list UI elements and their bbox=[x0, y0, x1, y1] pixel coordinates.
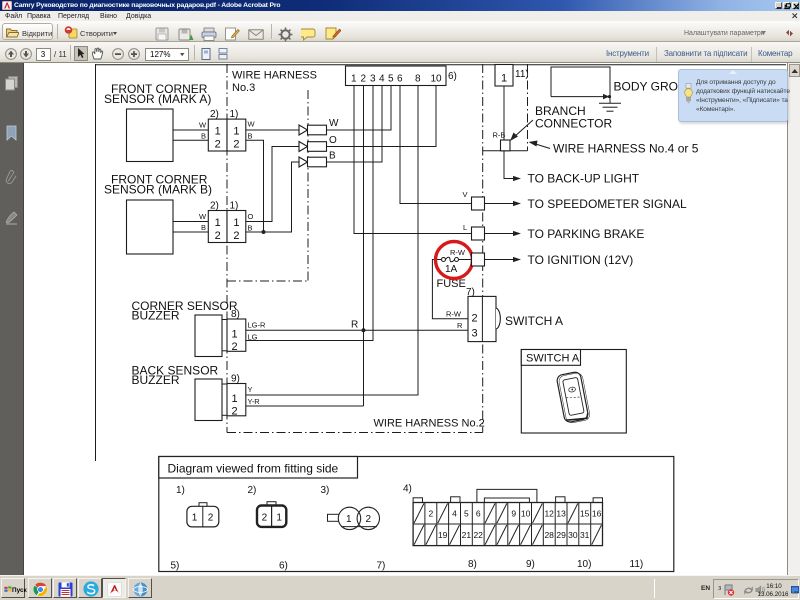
connector 7) divider bbox=[481, 296, 483, 341]
svg-text:10): 10) bbox=[577, 559, 591, 570]
svg-text:4: 4 bbox=[452, 509, 457, 519]
svg-text:1: 1 bbox=[232, 328, 238, 340]
wire B filter to pin4 bbox=[327, 86, 383, 163]
svg-text:WIRE HARNESS: WIRE HARNESS bbox=[232, 70, 317, 82]
wire LG: connector 8 pin2 (joins pin3 line) bbox=[246, 340, 373, 342]
noise filter W triangle bbox=[299, 125, 308, 135]
noise filter B box bbox=[308, 157, 327, 167]
svg-text:30: 30 bbox=[568, 530, 578, 540]
svg-text:8: 8 bbox=[415, 74, 421, 85]
svg-text:Y: Y bbox=[248, 385, 253, 394]
wire LG-R / R to switch pin3 bbox=[246, 329, 468, 331]
wire O: connector B up to noise filter O bbox=[246, 147, 299, 222]
svg-text:BUZZER: BUZZER bbox=[132, 373, 180, 387]
svg-text:1): 1) bbox=[176, 485, 185, 496]
svg-text:TO IGNITION (12V): TO IGNITION (12V) bbox=[528, 253, 634, 267]
svg-text:2): 2) bbox=[210, 109, 219, 120]
svg-text:2: 2 bbox=[215, 139, 221, 151]
svg-text:1: 1 bbox=[233, 125, 239, 137]
svg-text:WIRE HARNESS No.4 or 5: WIRE HARNESS No.4 or 5 bbox=[553, 142, 699, 156]
svg-text:BUZZER: BUZZER bbox=[132, 309, 180, 323]
connector 8) corner buzzer bbox=[227, 319, 246, 351]
svg-text:LG: LG bbox=[248, 332, 258, 341]
front corner sensor (MARK A) body bbox=[127, 109, 174, 162]
connector 2) sensor A side bbox=[208, 119, 227, 151]
noise filter O box bbox=[308, 142, 327, 152]
connector 6) main harness bbox=[346, 66, 447, 86]
svg-text:3): 3) bbox=[321, 485, 330, 496]
connector V (speedometer) bbox=[472, 197, 485, 210]
svg-text:12: 12 bbox=[544, 509, 554, 519]
connector 7) switch A bbox=[468, 296, 496, 341]
svg-text:21: 21 bbox=[462, 530, 472, 540]
svg-text:3: 3 bbox=[370, 74, 376, 85]
svg-text:WIRE HARNESS No.2: WIRE HARNESS No.2 bbox=[374, 418, 485, 430]
connector IGN bbox=[472, 253, 485, 266]
connector 1) harness side B bbox=[227, 211, 246, 243]
svg-text:CONNECTOR: CONNECTOR bbox=[535, 117, 612, 131]
svg-text:9): 9) bbox=[231, 374, 240, 385]
svg-text:11): 11) bbox=[515, 69, 529, 80]
SWITCH A picture box bbox=[521, 350, 626, 434]
svg-text:W: W bbox=[199, 212, 207, 221]
body ground junction arrow bbox=[603, 94, 610, 99]
svg-text:B: B bbox=[201, 223, 206, 232]
junction dot B net bbox=[262, 230, 266, 234]
svg-text:15: 15 bbox=[580, 509, 590, 519]
svg-text:SWITCH A: SWITCH A bbox=[526, 353, 580, 365]
svg-text:V: V bbox=[463, 190, 468, 199]
svg-text:B: B bbox=[248, 132, 253, 141]
svg-text:5): 5) bbox=[171, 561, 180, 572]
connector drawing 3) bbox=[328, 507, 380, 529]
svg-text:2): 2) bbox=[210, 201, 219, 212]
svg-text:22: 22 bbox=[473, 530, 483, 540]
connector 11) bbox=[495, 65, 513, 87]
svg-text:LG-R: LG-R bbox=[248, 321, 267, 330]
rocker switch drawing bbox=[556, 371, 591, 424]
svg-text:2: 2 bbox=[429, 509, 434, 519]
front corner sensor (MARK B) body bbox=[127, 200, 174, 254]
ground symbol bbox=[609, 97, 611, 103]
noise filter O triangle bbox=[299, 142, 308, 152]
svg-text:31: 31 bbox=[580, 530, 590, 540]
svg-text:3: 3 bbox=[472, 328, 478, 340]
svg-text:R-W: R-W bbox=[450, 248, 466, 257]
svg-text:B: B bbox=[329, 151, 336, 162]
svg-text:19: 19 bbox=[438, 530, 448, 540]
wire B: connector B right, up to noise filter B bbox=[246, 162, 299, 232]
svg-text:SENSOR (MARK B): SENSOR (MARK B) bbox=[104, 182, 212, 196]
wire B: connector A down to join B net bbox=[246, 140, 264, 232]
junction dot R net bbox=[362, 328, 366, 332]
svg-text:2: 2 bbox=[232, 405, 238, 417]
svg-text:R-W: R-W bbox=[446, 310, 462, 319]
svg-text:2: 2 bbox=[472, 313, 478, 325]
svg-text:2: 2 bbox=[215, 230, 221, 242]
svg-text:1: 1 bbox=[276, 513, 282, 524]
svg-text:TO BACK-UP LIGHT: TO BACK-UP LIGHT bbox=[528, 172, 640, 186]
svg-text:1: 1 bbox=[215, 217, 221, 229]
wire harness No.4/5 boundary dash-dot x527.5 bbox=[527, 64, 529, 151]
svg-text:2: 2 bbox=[232, 341, 238, 353]
fuse symbol F1 1A bbox=[442, 258, 446, 262]
svg-text:B: B bbox=[201, 132, 206, 141]
bottom section outer box bbox=[159, 457, 674, 572]
svg-text:O: O bbox=[248, 212, 254, 221]
connector drawing 1) bbox=[187, 503, 219, 527]
svg-text:6: 6 bbox=[476, 509, 481, 519]
connector 9) back buzzer bbox=[227, 384, 246, 416]
svg-text:W: W bbox=[248, 120, 256, 129]
svg-text:9): 9) bbox=[526, 559, 535, 570]
noise filter W box bbox=[308, 125, 327, 135]
svg-text:1A: 1A bbox=[445, 264, 458, 275]
svg-text:2: 2 bbox=[366, 514, 372, 525]
fuse wire left and down to switch pin2 bbox=[432, 260, 468, 319]
svg-text:10: 10 bbox=[521, 509, 531, 519]
svg-text:11): 11) bbox=[630, 559, 644, 570]
wire W filter to pin5 bbox=[327, 86, 392, 131]
connector 1) harness side A bbox=[227, 119, 246, 151]
diagram top frame line bbox=[96, 64, 787, 66]
svg-text:1: 1 bbox=[346, 514, 352, 525]
svg-text:1: 1 bbox=[215, 125, 221, 137]
connector 2) sensor B side bbox=[208, 211, 227, 243]
wire pin2 R net vertical bbox=[363, 86, 365, 407]
wire O filter to pin10 bbox=[327, 86, 437, 147]
svg-text:TO SPEEDOMETER SIGNAL: TO SPEEDOMETER SIGNAL bbox=[528, 197, 687, 211]
svg-text:1): 1) bbox=[230, 109, 239, 120]
fuse right wire bbox=[459, 259, 472, 261]
connector L (parking brake) bbox=[472, 227, 485, 240]
wire pin8 to buzzer Y bbox=[246, 86, 418, 396]
svg-text:13: 13 bbox=[556, 509, 566, 519]
svg-text:W: W bbox=[329, 118, 339, 129]
wire sensor B pin1 W bbox=[173, 221, 208, 223]
noise filter B triangle bbox=[299, 157, 308, 167]
red highlight circle around fuse bbox=[436, 242, 473, 279]
svg-text:1: 1 bbox=[233, 217, 239, 229]
svg-text:No.3: No.3 bbox=[232, 82, 255, 94]
body ground feed line bbox=[551, 96, 604, 98]
svg-text:W: W bbox=[199, 121, 207, 130]
svg-text:TO PARKING BRAKE: TO PARKING BRAKE bbox=[528, 227, 645, 241]
wire Y-R: connector 9 pin2 joins R net bbox=[246, 405, 364, 407]
svg-text:SENSOR (MARK A): SENSOR (MARK A) bbox=[104, 92, 211, 106]
wire sensor B pin2 B bbox=[173, 231, 208, 233]
svg-text:2: 2 bbox=[361, 74, 367, 85]
svg-text:6): 6) bbox=[279, 561, 288, 572]
svg-text:10: 10 bbox=[431, 74, 443, 85]
svg-text:2): 2) bbox=[248, 485, 257, 496]
wire harness No.3 boundary dash-dot x227 bbox=[226, 64, 228, 433]
wire harness No.3 boundary dash-dot x308 bbox=[307, 90, 309, 281]
svg-text:SWITCH A: SWITCH A bbox=[505, 314, 563, 328]
svg-text:2: 2 bbox=[233, 139, 239, 151]
svg-text:R: R bbox=[351, 319, 358, 330]
wire harness No.2 boundary dash-dot y432.5 bbox=[227, 432, 483, 434]
wire W: connector A to noise filter W bbox=[246, 129, 299, 131]
branch connector box bbox=[501, 140, 511, 151]
title cell bbox=[159, 457, 358, 479]
svg-text:5: 5 bbox=[388, 74, 394, 85]
svg-text:1): 1) bbox=[230, 201, 239, 212]
svg-text:7): 7) bbox=[466, 287, 475, 298]
wire backup light from branch connector bbox=[504, 151, 514, 179]
svg-text:B: B bbox=[248, 224, 253, 233]
svg-text:29: 29 bbox=[556, 530, 566, 540]
svg-text:1: 1 bbox=[501, 73, 507, 85]
svg-text:6): 6) bbox=[448, 71, 457, 82]
body ground wire loop bbox=[551, 67, 610, 97]
frame left border line bbox=[95, 64, 97, 461]
svg-text:5: 5 bbox=[464, 509, 469, 519]
arrow ignition bbox=[485, 259, 515, 261]
wire sensor A pin2 B bbox=[173, 139, 208, 141]
svg-text:R: R bbox=[457, 321, 463, 330]
wire harness No.3 boundary dash-dot y281 bbox=[227, 280, 308, 282]
svg-text:2: 2 bbox=[208, 513, 214, 524]
svg-text:Diagram viewed from fitting si: Diagram viewed from fitting side bbox=[168, 462, 339, 476]
switch contact bump bbox=[496, 308, 500, 329]
wire sensor A pin1 W bbox=[173, 129, 208, 131]
SWITCH A picture title cell bbox=[521, 350, 580, 366]
arrow speedometer bbox=[485, 203, 515, 205]
connector drawing 4) 31-pin bbox=[413, 489, 602, 545]
svg-text:O: O bbox=[329, 135, 337, 146]
svg-text:9: 9 bbox=[511, 509, 516, 519]
wire pin1 to parking brake L bbox=[354, 86, 472, 234]
svg-text:16: 16 bbox=[592, 509, 602, 519]
wire harness No.4/5 bottom edge bbox=[483, 150, 528, 152]
svg-text:1: 1 bbox=[351, 74, 357, 85]
arrow to harness 4/5 boundary bbox=[534, 144, 550, 149]
svg-text:8): 8) bbox=[231, 309, 240, 320]
svg-text:28: 28 bbox=[544, 530, 554, 540]
svg-text:6: 6 bbox=[397, 74, 403, 85]
arrow parking brake bbox=[485, 233, 515, 235]
svg-text:Y-R: Y-R bbox=[248, 397, 261, 406]
svg-text:4: 4 bbox=[379, 74, 385, 85]
arrow to branch connector bbox=[514, 120, 534, 138]
wire pin3 to LG bbox=[246, 86, 373, 341]
wire connector 11 down to branch connector bbox=[503, 86, 505, 140]
svg-text:7): 7) bbox=[377, 561, 386, 572]
wire harness No.2 boundary dash-dot x482.7 bbox=[482, 64, 484, 433]
svg-text:4): 4) bbox=[403, 484, 412, 495]
svg-text:8): 8) bbox=[468, 559, 477, 570]
corner sensor buzzer body bbox=[195, 315, 222, 357]
svg-text:2: 2 bbox=[262, 513, 268, 524]
svg-text:2: 2 bbox=[233, 230, 239, 242]
connector drawing 2) bbox=[257, 502, 286, 527]
svg-text:1: 1 bbox=[192, 513, 198, 524]
wire pin6 to speedometer V bbox=[400, 86, 472, 204]
back sensor buzzer body bbox=[195, 379, 222, 421]
svg-text:R-B: R-B bbox=[493, 131, 506, 140]
svg-text:L: L bbox=[463, 223, 467, 232]
svg-text:1: 1 bbox=[232, 393, 238, 405]
